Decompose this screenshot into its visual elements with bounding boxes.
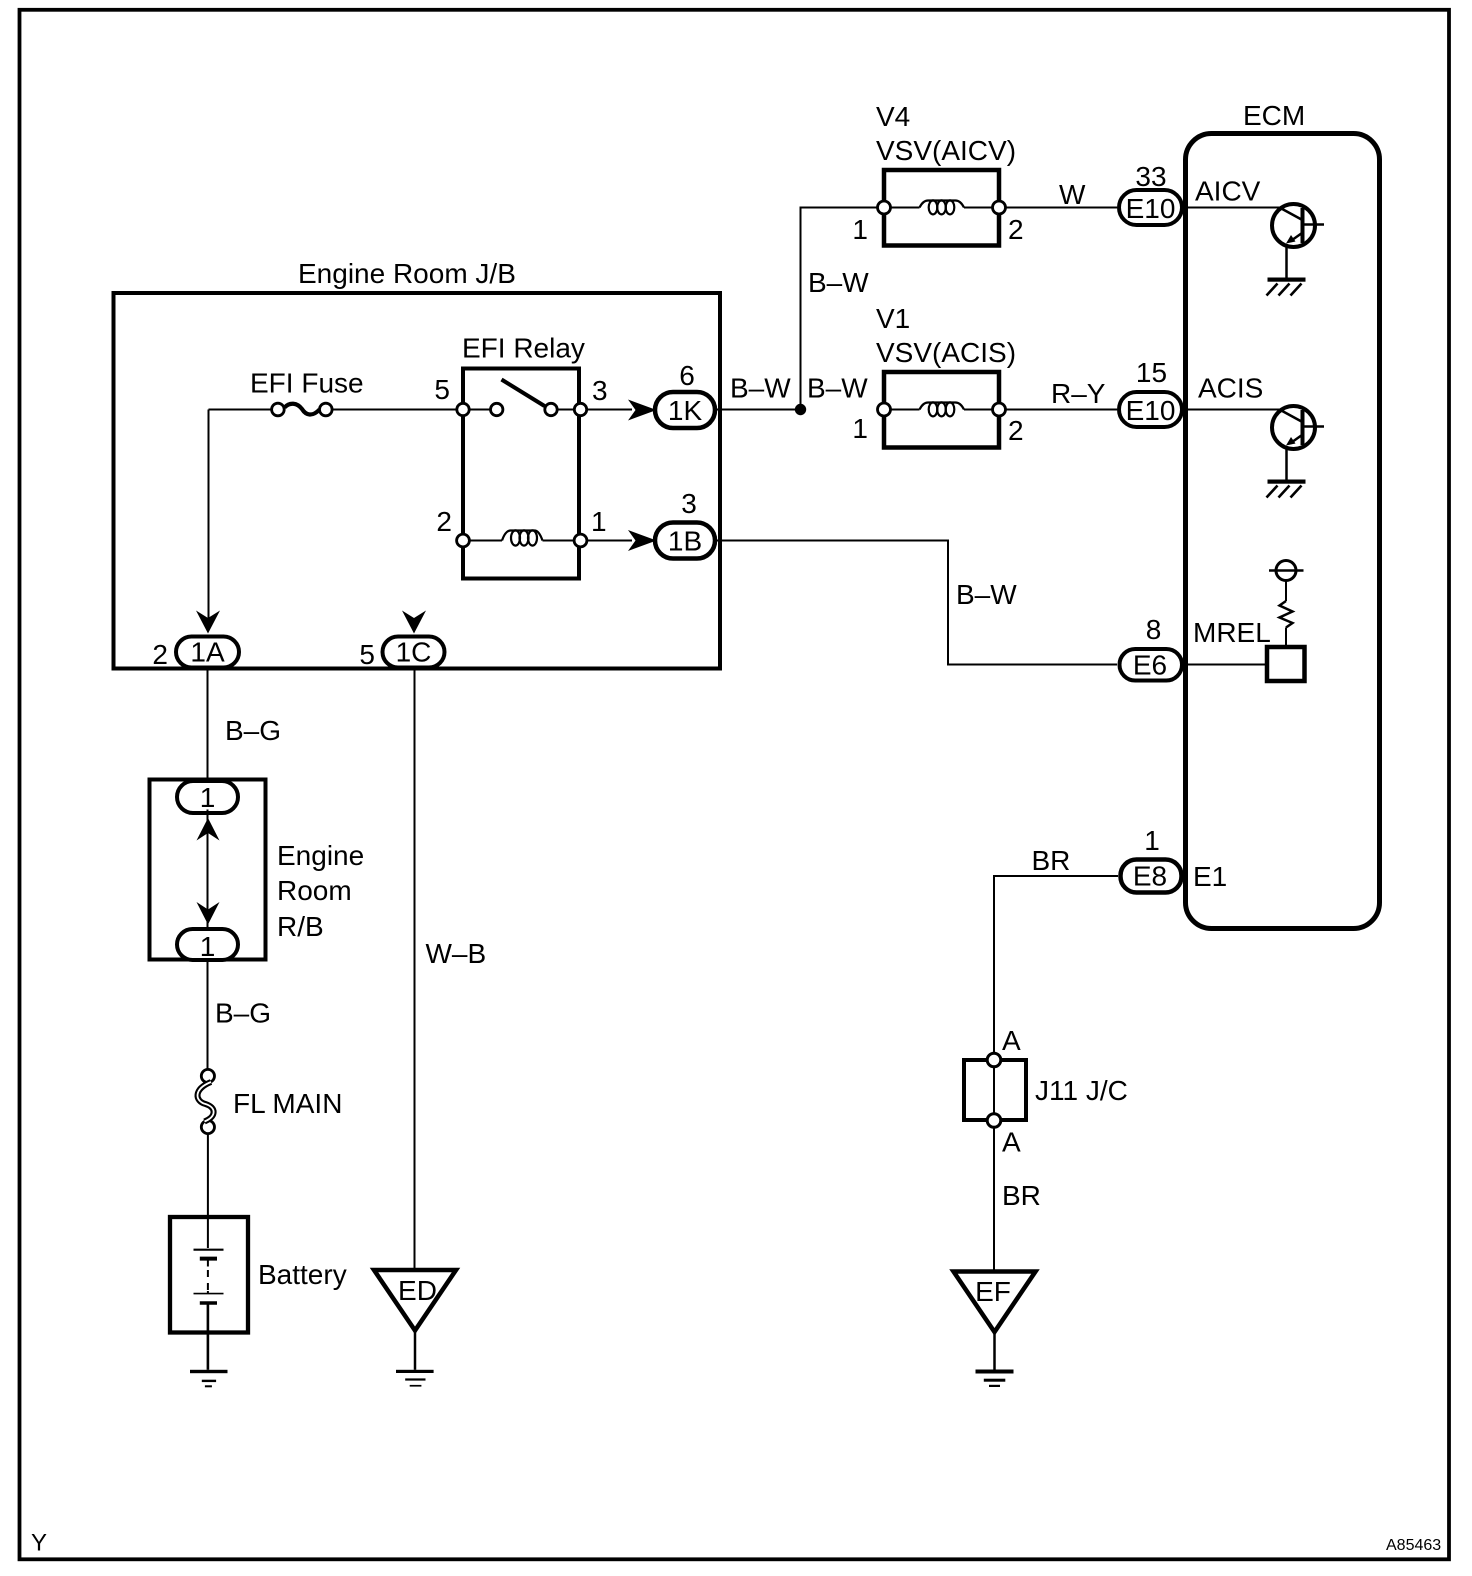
- svg-text:EFI Fuse: EFI Fuse: [250, 368, 364, 399]
- wire to EFI fuse: [209, 409, 273, 411]
- wire E10 to AICV transistor: [1182, 207, 1281, 209]
- svg-text:VSV(AICV): VSV(AICV): [876, 135, 1016, 166]
- svg-text:5: 5: [359, 639, 375, 670]
- svg-text:E1: E1: [1193, 861, 1227, 892]
- wire through J11 down to EF: [993, 1055, 995, 1271]
- relay pin 3: [574, 403, 586, 415]
- svg-text:B–G: B–G: [215, 998, 271, 1029]
- V1 pin 1: [878, 403, 891, 416]
- R/B top connector 1: [177, 781, 238, 813]
- wire battery to ground: [207, 1334, 210, 1370]
- R/B bottom connector 1: [177, 929, 238, 962]
- svg-text:BR: BR: [1032, 845, 1071, 876]
- svg-text:1: 1: [200, 931, 216, 962]
- wire 1B to E6: [717, 541, 1117, 665]
- svg-text:B–W: B–W: [807, 373, 868, 404]
- arrow into 1K: [628, 400, 657, 421]
- V4 pin 2: [993, 201, 1006, 214]
- ground symbol EF: [976, 1370, 1014, 1388]
- svg-text:2: 2: [436, 506, 452, 537]
- svg-text:3: 3: [592, 375, 608, 406]
- svg-text:A: A: [1002, 1025, 1021, 1056]
- battery cells: [194, 1250, 224, 1334]
- wire 1C down to ED: [414, 670, 416, 1270]
- ground symbol battery: [190, 1370, 228, 1388]
- connector E10 AICV: [1119, 190, 1182, 225]
- svg-text:1C: 1C: [396, 637, 432, 668]
- svg-text:Engine: Engine: [277, 840, 364, 871]
- svg-text:5: 5: [434, 374, 450, 405]
- ground symbol ED: [396, 1370, 434, 1387]
- svg-text:2: 2: [1008, 415, 1024, 446]
- svg-text:2: 2: [1008, 214, 1024, 245]
- svg-text:BR: BR: [1002, 1180, 1041, 1211]
- ECM box: [1186, 134, 1380, 929]
- junction block J11 J/C: [964, 1053, 1026, 1127]
- Engine Room R/B label: [277, 840, 364, 942]
- svg-text:V1: V1: [876, 303, 910, 334]
- svg-text:ACIS: ACIS: [1198, 373, 1263, 404]
- svg-text:MREL: MREL: [1193, 617, 1271, 648]
- svg-text:1: 1: [852, 214, 868, 245]
- solenoid V1 box: [884, 372, 999, 448]
- svg-text:EFI Relay: EFI Relay: [462, 333, 585, 364]
- svg-text:B–W: B–W: [808, 267, 869, 298]
- svg-text:Battery: Battery: [258, 1259, 347, 1290]
- wire 1K to junction: [717, 409, 801, 411]
- V1 pin 2: [993, 403, 1006, 416]
- ground ACIS: [1267, 480, 1306, 498]
- connector E6: [1120, 649, 1183, 681]
- svg-text:8: 8: [1146, 614, 1162, 645]
- V4 pin 1: [878, 201, 891, 214]
- wire ED to ground: [414, 1331, 417, 1370]
- wire relay pin 3 to 1K arrow: [587, 409, 632, 411]
- svg-text:B–W: B–W: [730, 373, 791, 404]
- svg-text:A: A: [1002, 1127, 1021, 1158]
- battery box: [170, 1217, 248, 1333]
- fuse EFI Fuse: [272, 403, 333, 416]
- svg-text:Y: Y: [31, 1530, 47, 1557]
- svg-text:6: 6: [679, 360, 695, 391]
- svg-text:R–Y: R–Y: [1051, 378, 1106, 409]
- svg-text:1: 1: [200, 782, 216, 813]
- relay pin 5: [457, 403, 469, 415]
- arrow into 1A: [196, 611, 220, 634]
- transistor AICV: [1272, 204, 1324, 278]
- svg-text:W: W: [1059, 179, 1086, 210]
- connector 1C: [383, 637, 445, 668]
- svg-text:Engine Room J/B: Engine Room J/B: [298, 258, 516, 289]
- V4 coil: [890, 200, 993, 214]
- connector E10 ACIS: [1119, 392, 1182, 427]
- svg-text:VSV(ACIS): VSV(ACIS): [876, 337, 1016, 368]
- wire V4 to E10: [1006, 207, 1118, 209]
- V1 coil: [890, 402, 993, 416]
- connector 1B: [655, 523, 715, 559]
- ground triangle ED: [374, 1270, 456, 1331]
- svg-text:ECM: ECM: [1243, 100, 1305, 131]
- svg-text:2: 2: [152, 639, 168, 670]
- wire FL MAIN to battery: [207, 1134, 209, 1249]
- svg-text:33: 33: [1135, 161, 1166, 192]
- wire 1A down to R/B: [207, 670, 209, 781]
- connector 1K: [655, 392, 715, 428]
- connector 1A: [176, 637, 239, 668]
- svg-text:3: 3: [681, 488, 697, 519]
- svg-text:E10: E10: [1126, 395, 1176, 426]
- wire E8 down to J11: [994, 876, 1118, 1055]
- svg-text:Room: Room: [277, 875, 352, 906]
- transistor ACIS: [1272, 406, 1324, 480]
- relay pin 2: [457, 534, 470, 547]
- arrow into 1C: [402, 611, 426, 634]
- connector E8: [1121, 860, 1182, 893]
- svg-text:E6: E6: [1133, 650, 1167, 681]
- ground triangle EF: [954, 1272, 1036, 1333]
- svg-text:V4: V4: [876, 101, 910, 132]
- wire EF to ground: [993, 1332, 996, 1370]
- svg-text:FL MAIN: FL MAIN: [233, 1088, 342, 1119]
- svg-text:1B: 1B: [668, 526, 702, 557]
- wire fuse to relay pin 5: [332, 409, 463, 411]
- wire E6 to MREL box: [1183, 664, 1268, 666]
- svg-text:1: 1: [852, 413, 868, 444]
- wire V1 to E10: [1006, 409, 1118, 411]
- wire inside R/B: [207, 810, 209, 929]
- wire R/B down to FL MAIN: [207, 959, 209, 1071]
- svg-text:E10: E10: [1126, 193, 1176, 224]
- relay pin 1: [574, 534, 587, 547]
- svg-text:A85463: A85463: [1386, 1537, 1441, 1554]
- relay coil: [469, 530, 574, 545]
- svg-text:AICV: AICV: [1195, 176, 1261, 207]
- wire junction up to V4: [801, 208, 885, 410]
- svg-text:W–B: W–B: [426, 938, 487, 969]
- wire E10 to ACIS transistor: [1182, 409, 1281, 411]
- svg-text:EF: EF: [975, 1276, 1011, 1307]
- up arrow in R/B: [197, 818, 220, 841]
- svg-text:E8: E8: [1133, 861, 1167, 892]
- svg-text:15: 15: [1136, 357, 1167, 388]
- MREL internal circuit: [1267, 561, 1305, 682]
- wire from fuse branch down to 1A: [208, 410, 210, 619]
- svg-text:J11 J/C: J11 J/C: [1035, 1075, 1128, 1106]
- svg-text:1A: 1A: [190, 637, 225, 668]
- ground AICV: [1267, 278, 1306, 296]
- solenoid V4 box: [884, 170, 999, 246]
- relay switch contacts and blade: [469, 380, 575, 416]
- Engine Room R/B box: [150, 780, 266, 960]
- svg-text:B–G: B–G: [225, 715, 281, 746]
- down arrow in R/B: [197, 902, 220, 925]
- svg-text:B–W: B–W: [956, 579, 1017, 610]
- svg-text:1K: 1K: [668, 395, 703, 426]
- Engine Room J/B box: [114, 293, 721, 669]
- svg-text:ED: ED: [398, 1275, 437, 1306]
- fusible link FL MAIN: [197, 1069, 214, 1133]
- svg-text:1: 1: [591, 506, 607, 537]
- svg-text:1: 1: [1144, 825, 1160, 856]
- svg-text:R/B: R/B: [277, 911, 324, 942]
- arrow into 1B: [628, 530, 657, 551]
- relay EFI Relay box: [463, 369, 579, 579]
- junction node: [795, 404, 806, 415]
- wire relay pin 1 to 1B arrow: [587, 540, 632, 542]
